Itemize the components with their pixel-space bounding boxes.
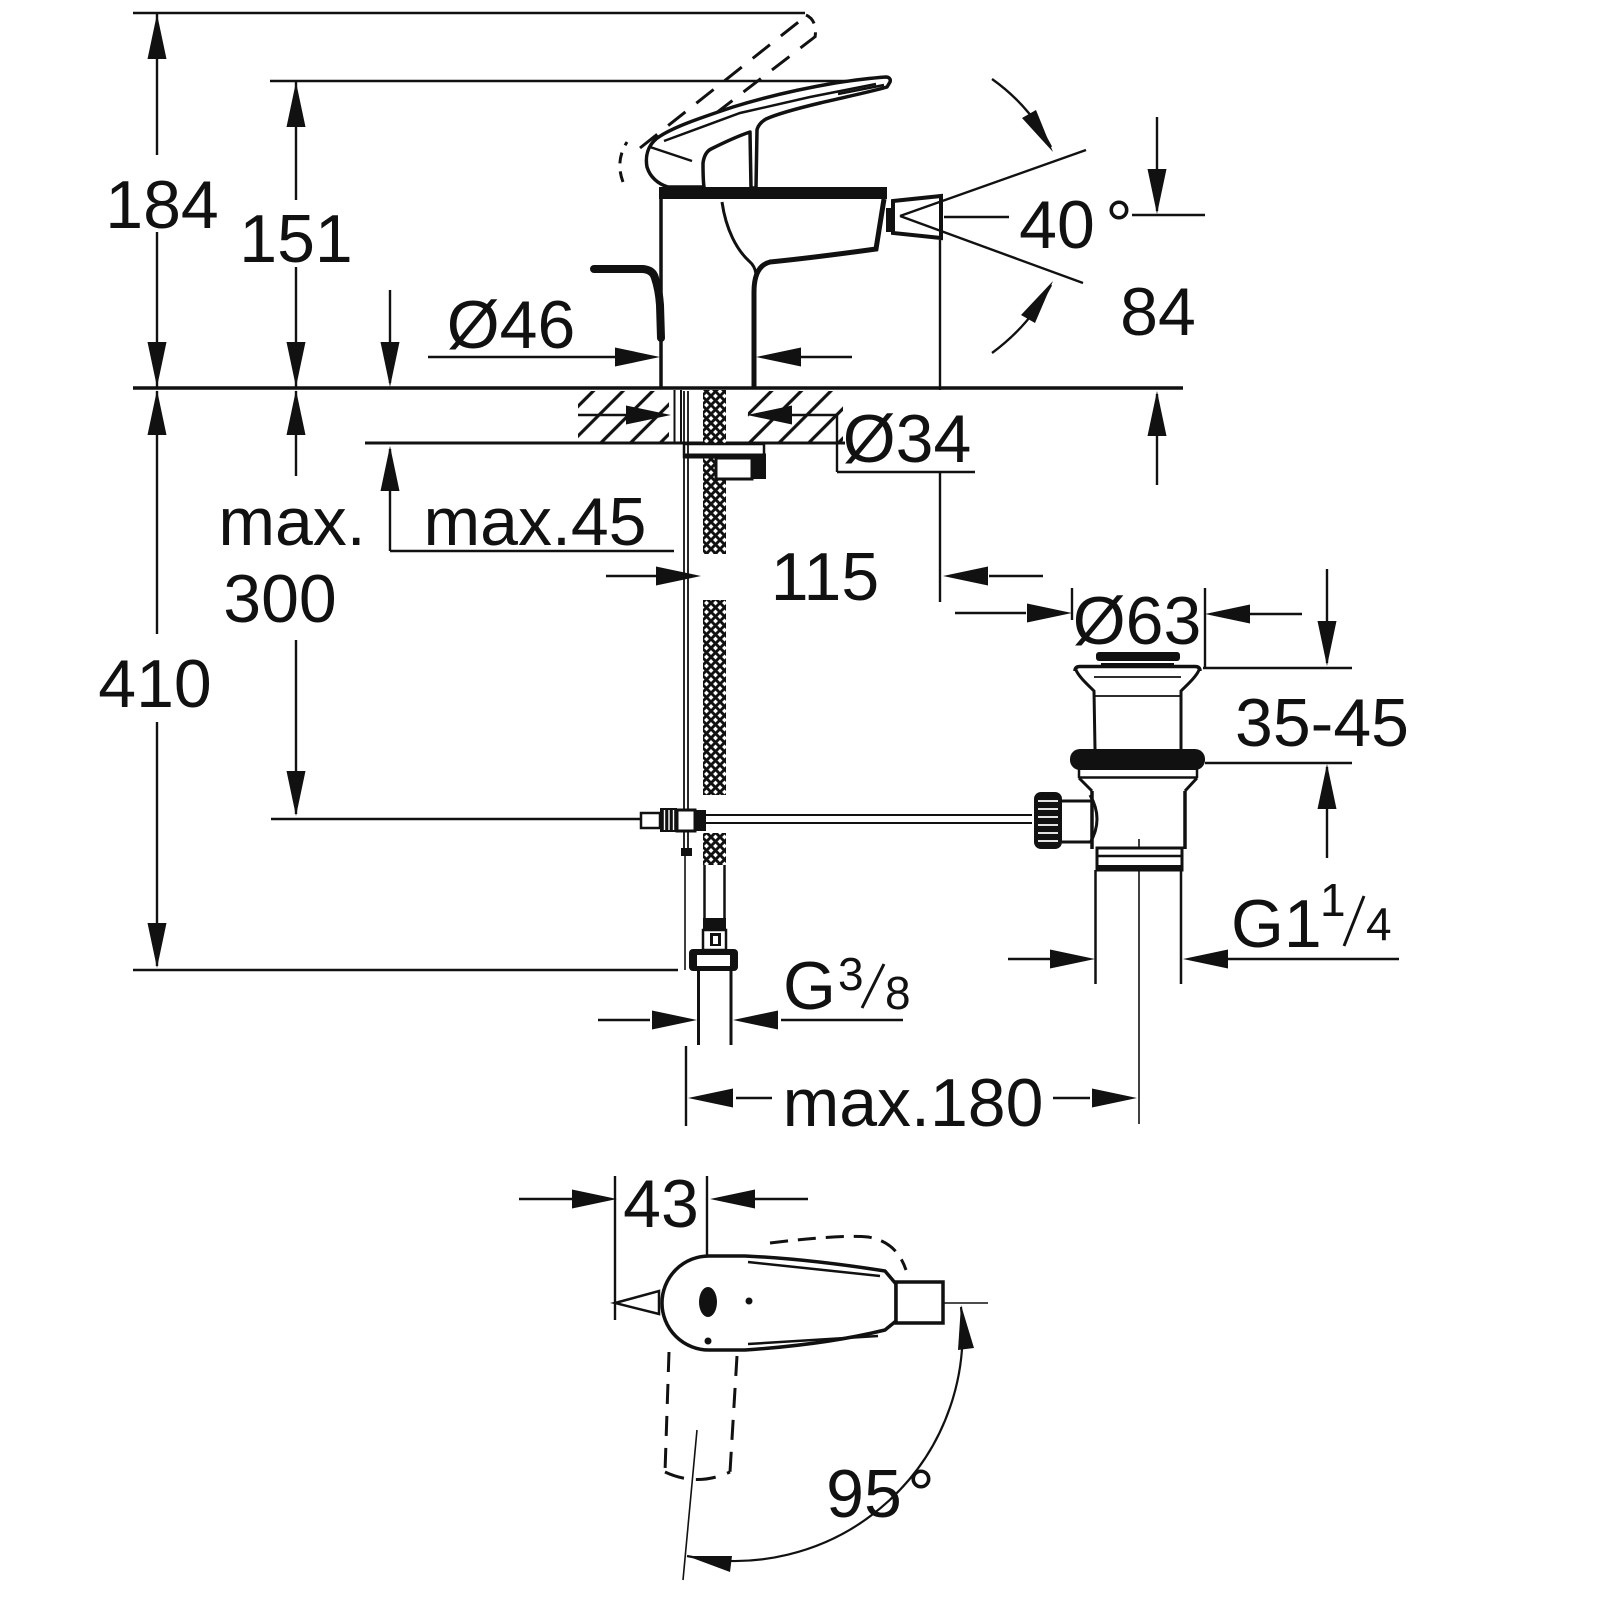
svg-text:115: 115 [771,539,879,615]
svg-text:Ø46: Ø46 [447,287,576,363]
svg-text:°: ° [907,1456,934,1532]
svg-text:151: 151 [239,201,352,277]
svg-text:max.180: max.180 [783,1065,1044,1141]
svg-text:184: 184 [105,167,218,243]
svg-text:Ø63: Ø63 [1073,583,1202,659]
svg-text:max.45: max.45 [424,484,647,560]
svg-text:G1: G1 [1231,886,1322,962]
svg-text:43: 43 [623,1166,699,1242]
svg-text:8: 8 [885,967,911,1019]
svg-text:410: 410 [98,646,211,722]
svg-text:40: 40 [1019,187,1095,263]
svg-text:95: 95 [826,1456,902,1532]
svg-text:Ø34: Ø34 [843,401,972,477]
svg-text:max.: max. [218,484,365,560]
svg-text:3: 3 [838,948,864,1000]
svg-text:4: 4 [1366,898,1392,950]
svg-text:84: 84 [1120,274,1196,350]
svg-text:35-45: 35-45 [1235,685,1409,761]
svg-text:°: ° [1105,187,1132,263]
svg-text:G: G [783,948,836,1024]
svg-text:1: 1 [1320,874,1346,926]
svg-text:300: 300 [223,561,336,637]
